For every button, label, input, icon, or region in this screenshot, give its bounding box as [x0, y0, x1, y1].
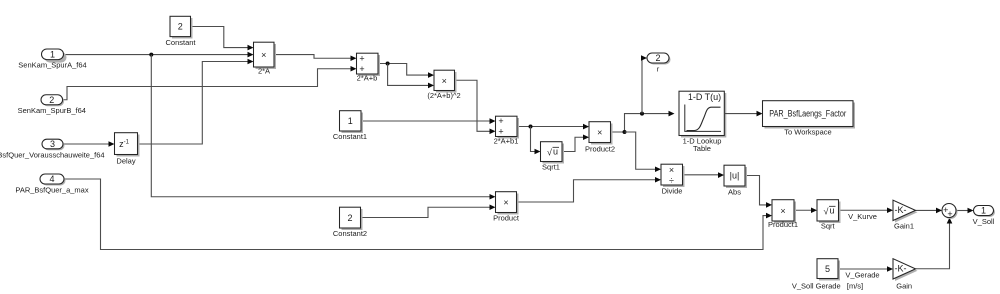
svg-text:+: + [359, 53, 364, 63]
svg-text:×: × [261, 50, 266, 60]
wire 2*A to 2*A+b input1 [274, 55, 357, 61]
svg-text:Gain: Gain [896, 282, 912, 291]
inport 1 SenKam_SpurA_f64 [18, 49, 86, 70]
wire branch up to outport r [641, 55, 647, 113]
svg-text:×: × [503, 198, 508, 208]
signal label V_Kurve [848, 212, 877, 221]
svg-text:Product1: Product1 [768, 220, 798, 229]
sum junction circle [942, 204, 958, 220]
svg-text:V_Gerade: V_Gerade [845, 271, 879, 280]
svg-text:Table: Table [693, 144, 711, 153]
svg-text:BsfQuer_Vorausschauweite_f64: BsfQuer_Vorausschauweite_f64 [0, 151, 105, 160]
constant block Constant2 value 2 [333, 207, 367, 238]
junction on 2*A+b1 output [529, 125, 533, 129]
svg-text:Abs: Abs [728, 188, 741, 197]
svg-text:PAR_BsfQuer_a_max: PAR_BsfQuer_a_max [15, 186, 88, 195]
sum block 2*A+b [357, 53, 381, 82]
svg-text:+: + [498, 116, 503, 126]
svg-text:1: 1 [981, 206, 986, 216]
wire Gain1 to Sum [916, 208, 943, 214]
product block Product [493, 192, 520, 223]
wire Product2 output to lookup table [611, 111, 675, 132]
svg-text:√: √ [547, 147, 552, 157]
sqrt block Sqrt [817, 200, 841, 231]
svg-text:Sqrt: Sqrt [821, 222, 836, 231]
wire inport1 to 2*A input2 [64, 52, 254, 58]
constant block value 5 V_Soll Gerade [792, 259, 863, 291]
divide block Divide [661, 164, 685, 195]
svg-text:2: 2 [655, 53, 660, 63]
wire inport1 branch down to Product input1 [151, 55, 495, 200]
junction on lookup feed wire [640, 112, 644, 116]
svg-text:2: 2 [347, 213, 352, 223]
wire Abs to Product1 input1 [745, 176, 772, 208]
svg-text:u: u [553, 147, 558, 157]
svg-text:2: 2 [178, 22, 183, 32]
constant block Constant value 2 [165, 16, 196, 47]
svg-text:5: 5 [825, 264, 830, 274]
wire 2*A+b branch to (2*A+b)^2 input2 [388, 64, 434, 89]
outport 1 V_Soll [973, 206, 995, 227]
svg-text:|u|: |u| [730, 171, 740, 181]
junction on inport1 wire [149, 53, 153, 57]
wire Constant1 to 2*A+b1 input1 [361, 118, 496, 124]
gain block Gain1 [893, 200, 918, 230]
svg-text:To Workspace: To Workspace [784, 128, 831, 137]
wire lookup table to To Workspace [724, 111, 762, 117]
svg-text:Sqrt1: Sqrt1 [542, 163, 560, 172]
unit delay block Delay [115, 133, 140, 166]
svg-text:+: + [947, 209, 952, 219]
junction on 2*A+b output [386, 62, 390, 66]
svg-text:1-D T(u): 1-D T(u) [688, 92, 721, 102]
svg-text:Delay: Delay [116, 157, 135, 166]
inport 3 BsfQuer_Vorausschauweite_f64 [0, 139, 105, 160]
svg-text:PAR_BsfLaengs_Factor: PAR_BsfLaengs_Factor [769, 109, 846, 119]
wire 2*A+b to (2*A+b)^2 input1 [378, 64, 434, 78]
wire Sum to outport V_Soll [956, 208, 974, 214]
svg-text:V_Soll Gerade [m/s]: V_Soll Gerade [m/s] [792, 282, 863, 291]
wire Sqrt to Gain1 [839, 207, 894, 213]
svg-text:-K-: -K- [895, 263, 907, 273]
sqrt block Sqrt1 [541, 142, 565, 172]
svg-text:÷: ÷ [669, 175, 674, 185]
svg-text:Constant1: Constant1 [333, 132, 367, 141]
wire (2*A+b)^2 to 2*A+b1 input2 [455, 80, 496, 134]
svg-text:1: 1 [348, 116, 353, 126]
svg-text:√: √ [824, 206, 829, 216]
product block (2*A+b)^2 [427, 70, 460, 100]
wire Constant2 to Product input2 [361, 204, 496, 217]
wire Constant to 2*A input1 [191, 27, 254, 51]
svg-text:4: 4 [49, 174, 54, 184]
product block Product1 [768, 200, 798, 229]
svg-text:Constant2: Constant2 [333, 229, 367, 238]
svg-text:2*A+b: 2*A+b [357, 74, 378, 83]
constant block Constant1 value 1 [333, 111, 367, 141]
svg-text:2*A: 2*A [258, 67, 270, 76]
1-D lookup table block [679, 91, 726, 153]
svg-text:+: + [498, 126, 503, 136]
svg-text:Divide: Divide [662, 187, 683, 196]
svg-text:2: 2 [49, 95, 54, 105]
gain block Gain [893, 259, 918, 291]
wire Delay to 2*A input3 [138, 59, 254, 144]
svg-text:×: × [780, 206, 785, 216]
svg-text:u: u [829, 206, 834, 216]
svg-text:SenKam_SpurA_f64: SenKam_SpurA_f64 [18, 61, 86, 70]
product block Product2 [585, 122, 615, 154]
wire Sqrt1 to Product2 input2 [562, 134, 589, 151]
wire Gain to Sum bottom input [916, 218, 953, 269]
outport 2 r [647, 53, 671, 74]
svg-text:(2*A+b)^2: (2*A+b)^2 [427, 91, 460, 100]
svg-text:Gain1: Gain1 [894, 222, 914, 231]
svg-text:3: 3 [50, 139, 55, 149]
svg-text:V_Kurve: V_Kurve [848, 212, 877, 221]
product block 2*A [254, 42, 277, 75]
to workspace block PAR_BsfLaengs_Factor [763, 101, 856, 137]
abs block Abs [724, 165, 747, 196]
wire Product to Divide input2 [517, 177, 662, 202]
svg-text:Constant: Constant [165, 38, 196, 47]
inport 2 SenKam_SpurB_f64 [18, 95, 86, 115]
wire Divide to Abs [683, 172, 725, 178]
sum block 2*A+b1 [494, 116, 519, 145]
wire inport2 to 2*A+b input2 [63, 66, 357, 100]
wire inport3 to Delay [63, 141, 115, 147]
wire Product1 to Sqrt [794, 207, 817, 213]
junction on Product2 output [623, 130, 627, 134]
svg-text:×: × [669, 165, 674, 175]
wire inport4 long path to Product1 input2 [64, 179, 772, 250]
wire Constant5 to Gain [838, 266, 893, 272]
svg-text:+: + [359, 64, 364, 74]
inport 4 PAR_BsfQuer_a_max [15, 174, 88, 195]
svg-text:V_Soll: V_Soll [973, 217, 995, 226]
wire 2*A+b1 branch to Sqrt1 [531, 127, 541, 155]
wire 2*A+b1 to Product2 input1 [517, 124, 589, 130]
svg-text:1: 1 [50, 49, 55, 59]
svg-text:Product: Product [493, 214, 520, 223]
svg-text:×: × [442, 76, 447, 86]
svg-text:Product2: Product2 [585, 145, 615, 154]
svg-text:SenKam_SpurB_f64: SenKam_SpurB_f64 [18, 106, 86, 115]
svg-text:2*A+b1: 2*A+b1 [494, 137, 519, 146]
svg-text:-K-: -K- [895, 205, 907, 215]
wire Product2 branch to Divide input1 [625, 132, 662, 172]
svg-text:×: × [597, 128, 602, 138]
signal label V_Gerade [845, 271, 879, 280]
